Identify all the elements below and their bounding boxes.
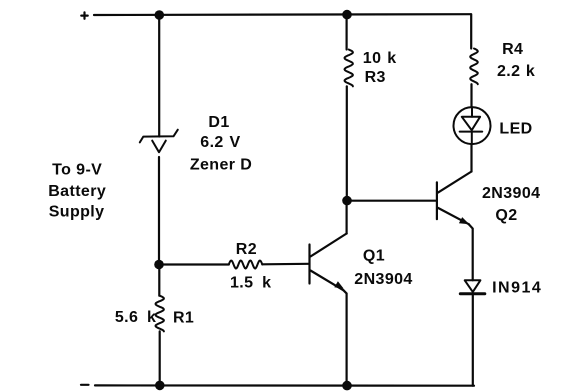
svg-text:D1: D1 [208,114,229,131]
node junction bottom-middle [342,381,352,391]
wire R2 left lead [159,263,229,265]
wire left branch lower [158,269,160,296]
resistor R3 [345,50,353,87]
svg-text:k: k [526,63,535,80]
svg-text:Battery: Battery [48,183,106,200]
wire IN914 bottom lead [472,294,474,386]
svg-text:R4: R4 [502,41,523,58]
node junction middle (Q1 collector / Q2 base) [342,196,352,206]
wire bottom negative rail [95,384,474,387]
svg-text:Zener D: Zener D [190,157,252,174]
svg-text:k: k [387,50,396,67]
wire top positive rail [94,13,471,16]
wire R4 top lead [470,14,472,48]
svg-text:2.2: 2.2 [497,63,520,80]
- terminal [81,384,89,386]
svg-text:R2: R2 [236,241,257,258]
svg-text:R3: R3 [365,69,386,86]
wire R4 bottom lead [470,84,472,107]
wire left branch mid [158,157,160,265]
wire Q2 base [347,200,436,202]
wire LED to Q2 collector [470,144,472,172]
svg-text:1.5: 1.5 [230,275,253,292]
svg-text:10: 10 [363,50,382,67]
svg-text:6.2: 6.2 [200,134,223,151]
svg-text:To 9-V: To 9-V [52,162,102,179]
transistor Q1 [310,203,347,386]
node junction top-middle [342,10,352,20]
node junction bottom-left [155,381,165,391]
resistor R2 [229,261,262,269]
wire R3 bottom lead [346,86,348,200]
wire R1 bottom lead [159,331,161,385]
resistor R1 [156,296,164,332]
LED [454,107,491,144]
transistor Q2 [437,172,473,281]
svg-text:2N3904: 2N3904 [354,271,412,288]
wire R2 right lead [262,263,308,266]
svg-text:5.6: 5.6 [115,309,138,326]
svg-text:Q2: Q2 [495,207,517,224]
svg-text:k: k [147,309,156,326]
svg-text:Supply: Supply [49,203,105,220]
svg-text:IN914: IN914 [492,280,542,297]
node junction top-left [155,10,165,20]
svg-text:2N3904: 2N3904 [482,185,540,202]
diode IN914 [460,280,485,293]
zener diode D1 [140,130,178,153]
svg-text:LED: LED [499,121,532,138]
node junction left (R2 tap) [154,260,164,270]
wire R3 top lead [346,15,348,50]
svg-text:R1: R1 [173,310,194,327]
svg-text:Q1: Q1 [363,248,385,265]
+ terminal [81,12,87,18]
svg-text:k: k [262,275,271,292]
wire left branch upper [158,15,160,137]
svg-text:V: V [229,134,240,151]
resistor R4 [470,49,478,85]
